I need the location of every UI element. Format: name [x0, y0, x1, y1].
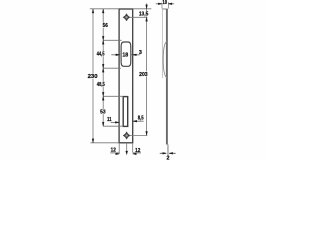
extension line at oval bottom [103, 67, 121, 69]
svg-text:12: 12 [111, 148, 116, 154]
extension line at latch hole bottom [103, 125, 123, 127]
label 48,5 [95, 82, 106, 87]
side view lip front edge [161, 9, 163, 78]
top countersunk screw hole [123, 14, 130, 21]
leader arrow 3 pointing at plate right edge [130, 54, 139, 56]
extension lines for 10 [161, 2, 163, 8]
strike plate front view outline [119, 9, 133, 143]
side view top edge [162, 8, 168, 10]
extension line at oval top [103, 39, 121, 41]
extension line top left from plate top edge [90, 8, 119, 10]
svg-text:11: 11 [107, 117, 112, 123]
label 53 [99, 109, 106, 114]
svg-text:230: 230 [88, 74, 98, 80]
screw hole leader top [130, 16, 148, 18]
svg-text:18: 18 [122, 53, 129, 59]
dimension 2 [160, 152, 166, 154]
label 56 [102, 23, 109, 28]
dimension 10 [156, 3, 162, 5]
svg-text:8,5: 8,5 [138, 115, 144, 121]
leader arrow 11 pointing at plate left edge [111, 121, 119, 123]
label 203 [138, 71, 148, 76]
extension line at latch hole top [103, 95, 123, 97]
oval cylinder hole [121, 42, 131, 66]
dimension line 230 overall height [92, 9, 94, 143]
svg-text:2: 2 [167, 156, 170, 160]
svg-text:56: 56 [103, 23, 108, 29]
leader arrow 8,5 pointing at plate right edge [133, 120, 144, 122]
leader arrow for oval width 18, left side [111, 54, 120, 56]
svg-text:53: 53 [100, 109, 106, 115]
screw hole leader bottom [130, 134, 148, 136]
side view plate body [166, 9, 168, 145]
latch rectangular hole [123, 97, 128, 127]
svg-text:48,5: 48,5 [97, 82, 105, 88]
dimension line 12 left [110, 152, 119, 154]
label 13,5 [138, 11, 150, 16]
svg-text:3: 3 [139, 50, 142, 56]
bottom centerline with arrow [126, 143, 128, 152]
extension lines for 2 at side view bottom [167, 145, 169, 156]
label 10 [162, 0, 168, 4]
dimension line 12 right [133, 152, 141, 154]
bottom countersunk screw hole [123, 132, 130, 139]
svg-text:12: 12 [135, 148, 140, 154]
bottom extension line left plate edge [118, 143, 120, 154]
svg-text:44,5: 44,5 [97, 52, 105, 58]
side view lip bend arc [163, 41, 167, 78]
extension line top right from plate top edge [133, 8, 152, 10]
label 230 [87, 74, 98, 79]
svg-text:13,5: 13,5 [139, 12, 149, 18]
svg-text:10: 10 [162, 0, 167, 6]
dimension line 13,5 and 203 shared vertical [146, 3, 148, 135]
label 44,5 [95, 51, 106, 56]
bottom extension line right plate edge [132, 143, 134, 153]
svg-text:203: 203 [139, 72, 148, 78]
chain dimension line 56 / 44,5 / 48,5 / 53 [102, 9, 104, 126]
extension line bottom left from plate bottom edge [91, 142, 120, 144]
